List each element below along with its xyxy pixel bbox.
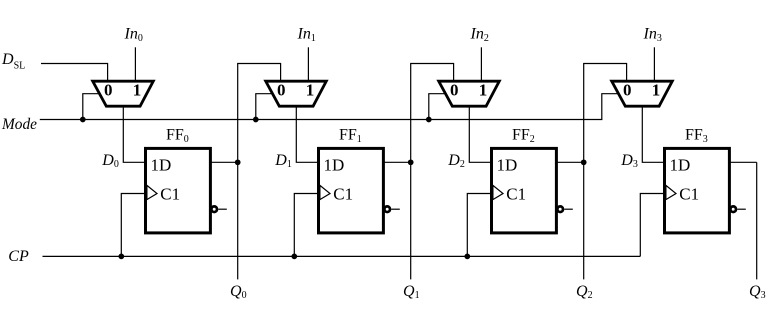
svg-text:C1: C1: [506, 185, 526, 204]
wire: node Q2 up and across to mux U3 0-input: [584, 64, 627, 163]
clock edge triangle (FF3): [666, 185, 676, 199]
svg-text:1: 1: [306, 81, 315, 100]
svg-text:In2: In2: [470, 26, 489, 44]
wire: In3 to mux U3 1-input: [653, 47, 655, 80]
junction dot node Q0: [235, 159, 241, 165]
wire: FF1 Q output to node Q1: [383, 161, 410, 163]
wire: node Q3 down to output label: [756, 162, 758, 279]
wire: DSL to mux U0 0-input: [41, 64, 108, 81]
wire: node Q0 up and across to mux U1 0-input: [238, 64, 281, 163]
wire: FF2 Q output to node Q2: [556, 161, 583, 163]
svg-text:1: 1: [479, 81, 488, 100]
mux U1: [266, 81, 327, 106]
wire: CP tap to FF0 C1: [121, 194, 145, 257]
wire: In1 to mux U1 1-input: [307, 47, 309, 80]
svg-text:1: 1: [133, 81, 142, 100]
wire: node Q0 down to output label: [237, 162, 239, 279]
junction dot on Mode line (stage 0): [80, 117, 86, 123]
svg-text:FF3: FF3: [685, 126, 708, 145]
junction dot on Mode line (stage 1): [253, 117, 259, 123]
svg-text:C1: C1: [333, 185, 353, 204]
svg-text:Q1: Q1: [403, 283, 420, 301]
wire: mux U1 select from Mode line: [256, 94, 273, 120]
svg-text:D2: D2: [447, 152, 465, 170]
svg-text:1D: 1D: [670, 156, 691, 175]
svg-text:In1: In1: [297, 26, 316, 44]
wire: FF3 Q output to node Q3: [729, 161, 756, 163]
flip-flop FF2 body: [492, 148, 557, 233]
svg-text:FF1: FF1: [339, 126, 362, 145]
inverted output bubble (FF1): [384, 206, 390, 212]
svg-text:Q2: Q2: [576, 283, 593, 301]
wire: mux U0 output to D0: [123, 105, 145, 162]
svg-text:C1: C1: [679, 185, 699, 204]
mux U0: [93, 81, 154, 106]
svg-text:Q3: Q3: [749, 283, 766, 301]
wire: inverted output stub (FF1): [391, 208, 400, 210]
svg-text:CP: CP: [8, 248, 29, 265]
flip-flop FF1 body: [319, 148, 384, 233]
wire: mux U2 output to D2: [469, 105, 491, 162]
svg-text:0: 0: [623, 81, 632, 100]
svg-text:1D: 1D: [151, 156, 172, 175]
svg-text:1D: 1D: [497, 156, 518, 175]
wire: mux U2 select from Mode line: [429, 94, 446, 120]
clock edge triangle (FF0): [147, 185, 157, 199]
wire: inverted output stub (FF0): [218, 208, 227, 210]
wire: CP tap to FF2 C1: [467, 194, 491, 257]
wire: FF0 Q output to node Q0: [210, 161, 237, 163]
flip-flop FF0 body: [146, 148, 211, 233]
wire: inverted output stub (FF3): [737, 208, 746, 210]
wire: CP line: [43, 255, 641, 257]
svg-text:Q0: Q0: [230, 283, 247, 301]
wire: node Q2 down to output label: [583, 162, 585, 279]
svg-text:0: 0: [450, 81, 459, 100]
junction dot node Q2: [581, 159, 587, 165]
svg-text:Mode: Mode: [1, 116, 37, 133]
svg-text:D3: D3: [620, 152, 638, 170]
svg-text:C1: C1: [160, 185, 180, 204]
junction dot on Mode line (stage 2): [426, 117, 432, 123]
wire: In2 to mux U2 1-input: [480, 47, 482, 80]
svg-text:FF2: FF2: [512, 126, 535, 145]
wire: node Q1 down to output label: [410, 162, 412, 279]
svg-text:D1: D1: [274, 152, 292, 170]
clock edge triangle (FF1): [320, 185, 330, 199]
wire: CP tap to FF3 C1: [640, 194, 664, 257]
svg-text:DSL: DSL: [1, 51, 25, 72]
junction dot on CP line (stage 2): [464, 254, 470, 260]
wire: In0 to mux U0 1-input: [134, 47, 136, 80]
wire: mux U3 output to D3: [642, 105, 664, 162]
mux U2: [439, 81, 500, 106]
wire: inverted output stub (FF2): [564, 208, 573, 210]
svg-text:0: 0: [277, 81, 286, 100]
svg-text:In0: In0: [124, 26, 143, 44]
wire: node Q1 up and across to mux U2 0-input: [411, 64, 454, 163]
wire: mux U3 select from Mode line: [602, 94, 619, 120]
clock edge triangle (FF2): [493, 185, 503, 199]
flip-flop FF3 body: [665, 148, 730, 233]
svg-text:D0: D0: [101, 152, 119, 170]
junction dot on CP line (stage 1): [291, 254, 297, 260]
svg-text:1: 1: [652, 81, 661, 100]
svg-text:FF0: FF0: [166, 126, 189, 145]
wire: Mode line: [40, 119, 603, 121]
inverted output bubble (FF2): [557, 206, 563, 212]
junction dot on CP line (stage 0): [118, 254, 124, 260]
mux U3: [612, 81, 673, 106]
inverted output bubble (FF0): [211, 206, 217, 212]
wire: mux U0 select from Mode line: [83, 94, 100, 120]
wire: mux U1 output to D1: [296, 105, 318, 162]
svg-text:In3: In3: [643, 26, 662, 44]
inverted output bubble (FF3): [730, 206, 736, 212]
wire: CP tap to FF1 C1: [294, 194, 318, 257]
junction dot node Q1: [408, 159, 414, 165]
svg-text:0: 0: [104, 81, 113, 100]
svg-text:1D: 1D: [324, 156, 345, 175]
